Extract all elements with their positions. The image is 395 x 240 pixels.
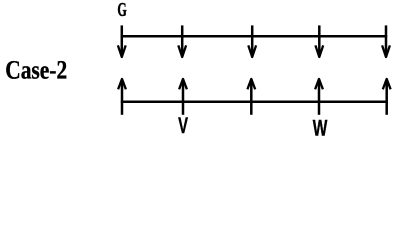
svg-text:Case-2: Case-2	[5, 56, 67, 85]
svg-text:G: G	[117, 0, 126, 21]
svg-text:W: W	[313, 116, 328, 141]
svg-text:V: V	[178, 113, 188, 138]
